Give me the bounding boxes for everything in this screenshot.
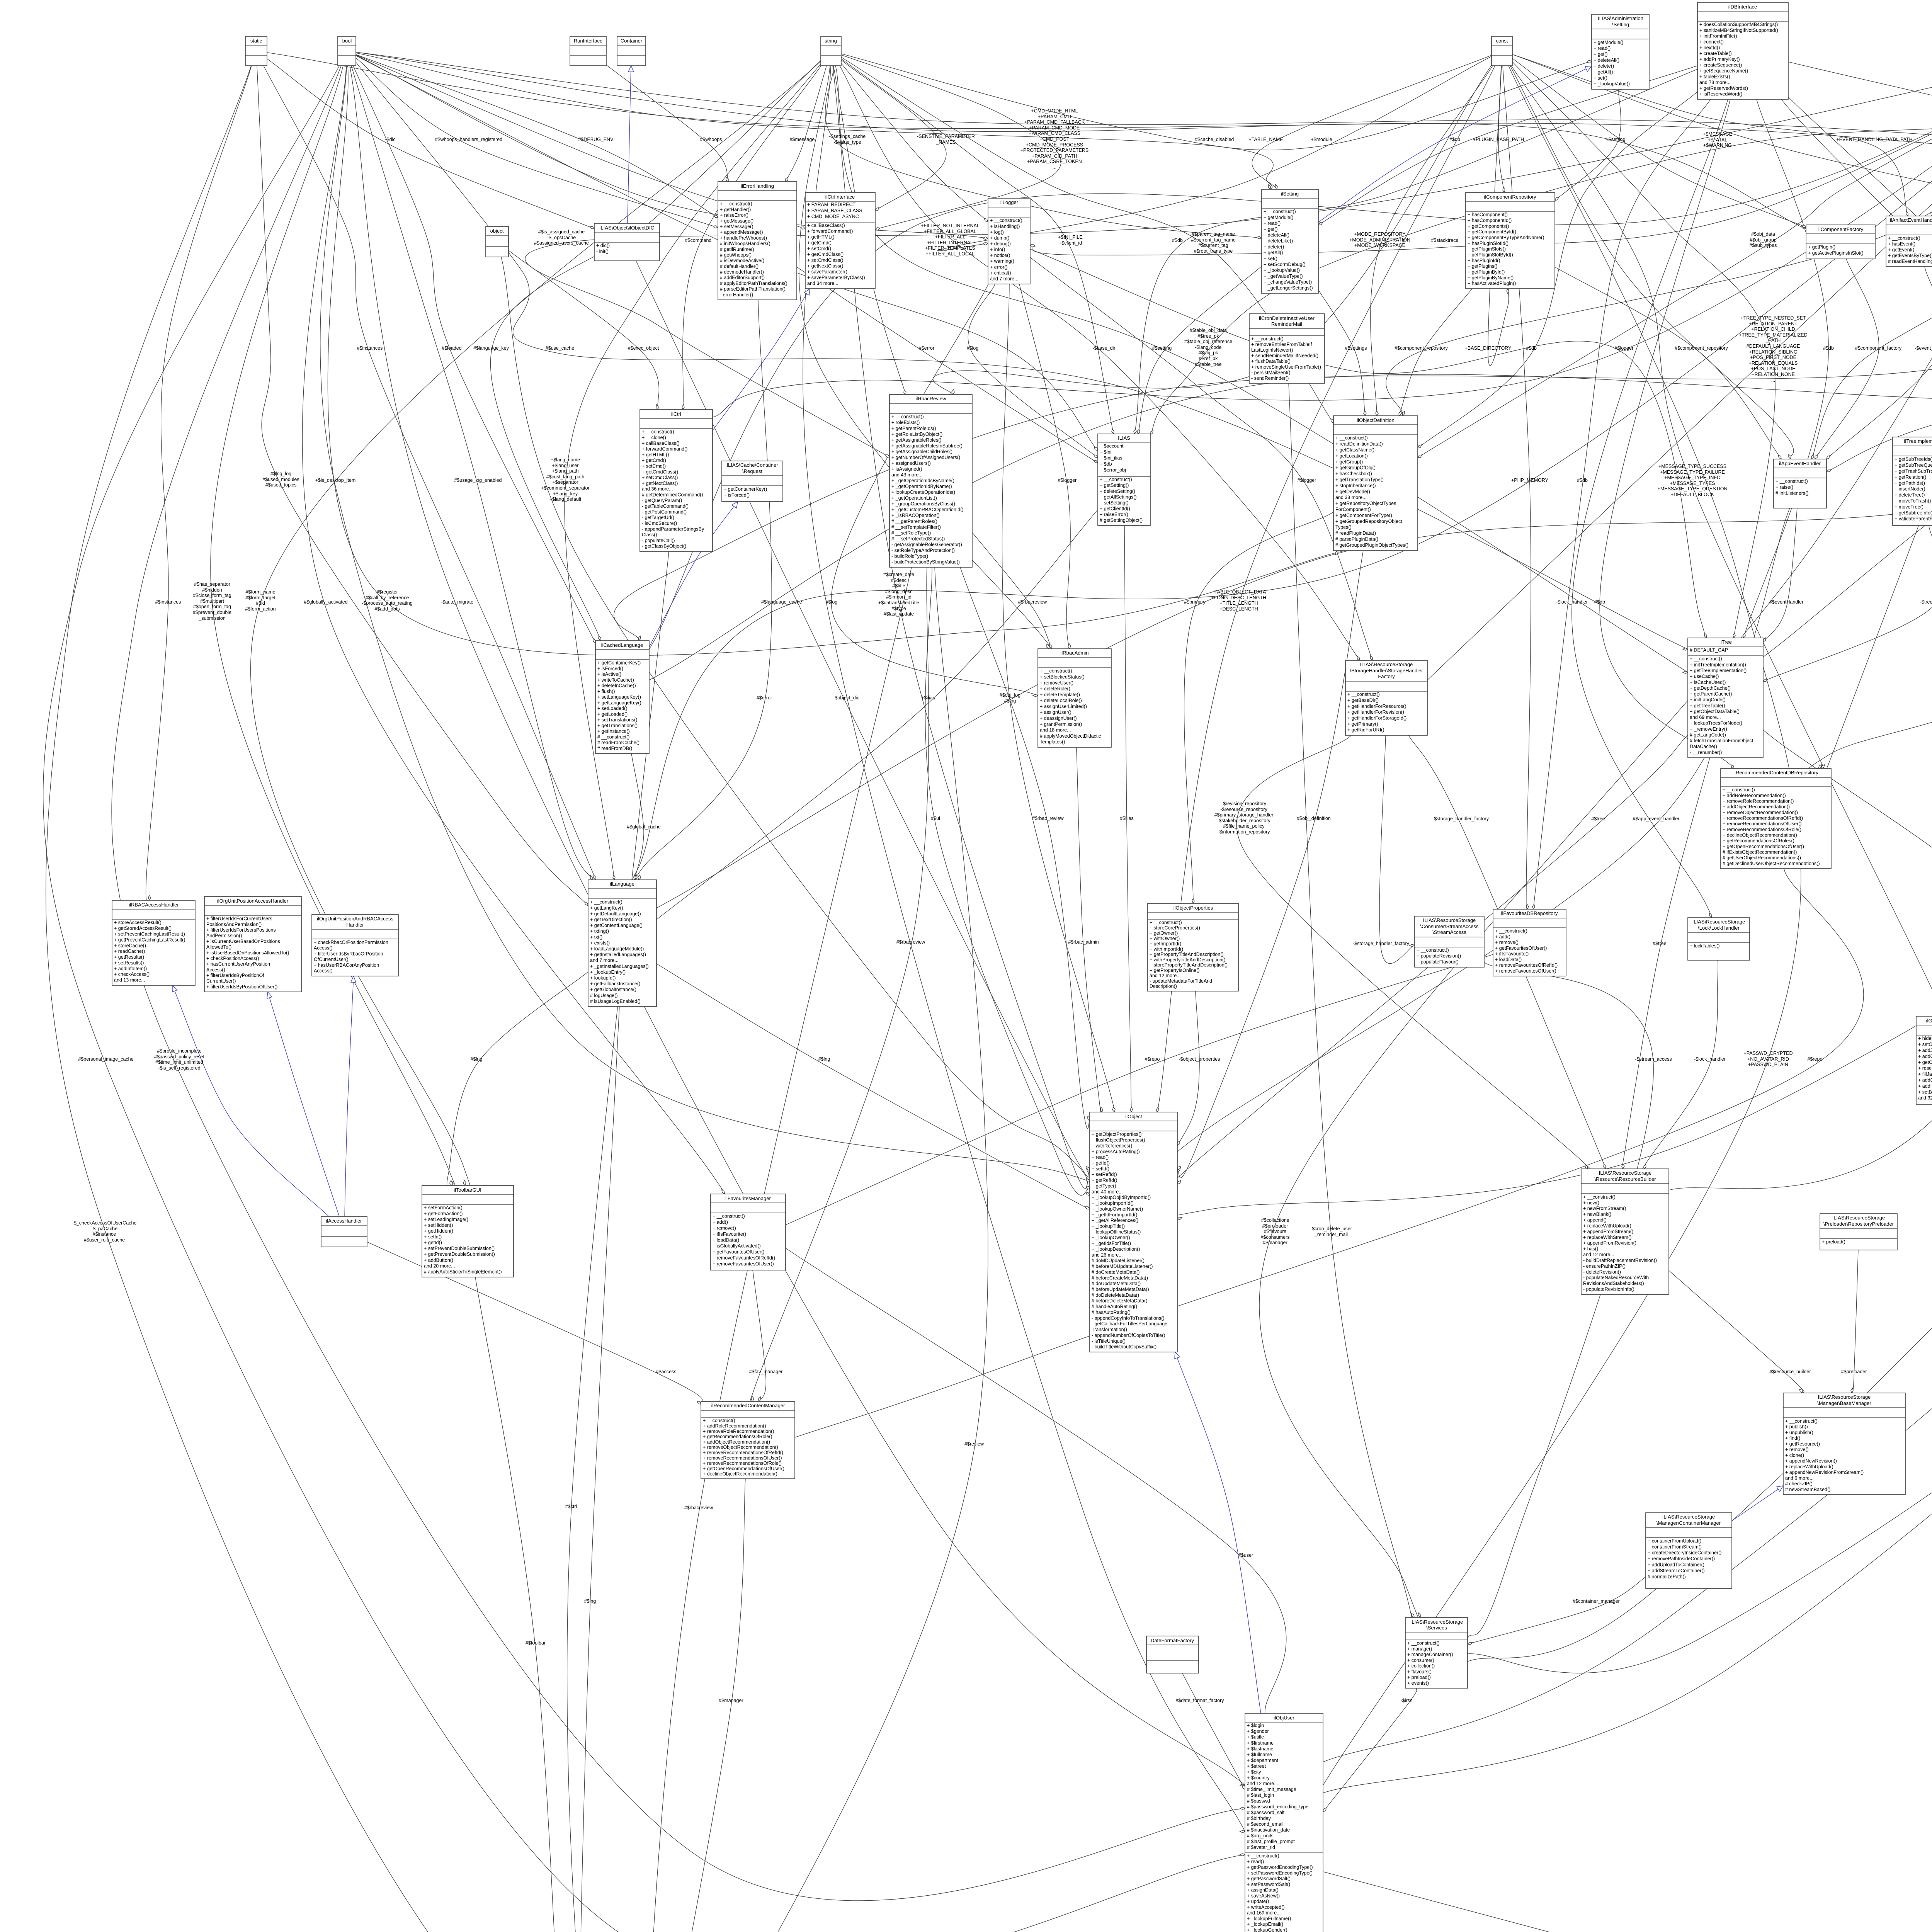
svg-text:and 18 more...: and 18 more... bbox=[1040, 728, 1071, 733]
svg-text:#$cache_disabled: #$cache_disabled bbox=[1195, 137, 1234, 142]
svg-text:+ getResource(): + getResource() bbox=[1785, 1441, 1820, 1447]
svg-text:# getWhoops(): # getWhoops() bbox=[720, 252, 752, 258]
svg-text:+ remove(): + remove() bbox=[1495, 940, 1519, 945]
svg-text:+ CMD_MODE_ASYNC: + CMD_MODE_ASYNC bbox=[807, 214, 859, 219]
svg-text:+ addOnLoadCode(): + addOnLoadCode() bbox=[1918, 1054, 1932, 1059]
svg-text:- getQueryParam(): - getQueryParam() bbox=[642, 498, 682, 503]
svg-text:+ forwardCommand(): + forwardCommand() bbox=[642, 446, 687, 452]
svg-text:+ getHandlerForResource(): + getHandlerForResource() bbox=[1347, 704, 1406, 709]
class bool bbox=[338, 36, 356, 66]
wire array to MAIN bbox=[695, 63, 1932, 1932]
svg-text:+ assignUser(): + assignUser() bbox=[1040, 710, 1071, 715]
wire array to ilCachedLanguage bbox=[629, 55, 1932, 681]
svg-text:+ critical(): + critical() bbox=[990, 270, 1011, 276]
svg-text:# $last_login: # $last_login bbox=[1247, 1793, 1274, 1798]
svg-text:# applyAutoStickyToSingleEleme: # applyAutoStickyToSingleElement() bbox=[424, 1269, 502, 1274]
svg-text:+ deleteAll(): + deleteAll() bbox=[1264, 233, 1289, 238]
svg-text:+PARAM_CMD_MODE: +PARAM_CMD_MODE bbox=[1029, 125, 1080, 131]
svg-text:+ hasPluginSlotId(): + hasPluginSlotId() bbox=[1468, 241, 1509, 246]
svg-text:Types(): Types() bbox=[1335, 525, 1352, 530]
wire ilObjectDIC to ilObject bbox=[636, 261, 1090, 1177]
svg-text:+ consume(): + consume() bbox=[1407, 1658, 1434, 1663]
svg-text:- populateNakedResourceWith: - populateNakedResourceWith bbox=[1583, 1275, 1649, 1281]
svg-text:#$exec_object: #$exec_object bbox=[628, 345, 659, 351]
svg-text:+ addJavaScript(): + addJavaScript() bbox=[1918, 1048, 1932, 1053]
svg-text:# getGroupedPluginObjectTypes(: # getGroupedPluginObjectTypes() bbox=[1335, 543, 1408, 548]
svg-text:+ getId(): + getId() bbox=[1092, 1160, 1110, 1166]
svg-text:#$hidden: #$hidden bbox=[202, 587, 222, 593]
svg-text:#$logger: #$logger bbox=[1058, 478, 1077, 483]
svg-text:+ getTranslations(): + getTranslations() bbox=[597, 723, 638, 728]
svg-text:#$used_modules: #$used_modules bbox=[262, 477, 299, 482]
svg-text:ILIAS\ResourceStorage: ILIAS\ResourceStorage bbox=[1599, 1170, 1652, 1176]
wire ilErrorHandling to ILIAS bbox=[797, 267, 1098, 463]
wire ilSetting to ILIAS bbox=[1138, 266, 1262, 434]
svg-text:+ __construct(): + __construct() bbox=[1264, 209, 1296, 214]
wire ilGlobalTemplateInterface to MAIN bbox=[695, 1104, 1932, 1932]
svg-text:+ deleteInCache(): + deleteInCache() bbox=[597, 683, 636, 689]
svg-text:+ log(): + log() bbox=[990, 230, 1004, 235]
wire ContainerManager to BaseManager bbox=[1732, 1486, 1783, 1521]
svg-text:-$tree_impl: -$tree_impl bbox=[1920, 599, 1932, 605]
svg-text:ilTreeImplementation: ilTreeImplementation bbox=[1904, 438, 1932, 444]
svg-text:+ saveParameterByClass(): + saveParameterByClass() bbox=[807, 275, 865, 281]
svg-text:+ _getLongerSettings(): + _getLongerSettings() bbox=[1264, 285, 1313, 291]
svg-text:ilObject: ilObject bbox=[1125, 1114, 1142, 1119]
wire ilTreeImplementation to ilTree bbox=[1763, 526, 1932, 681]
svg-text:+ getHTML(): + getHTML() bbox=[642, 452, 669, 457]
svg-text:+ __clone(): + __clone() bbox=[642, 435, 666, 440]
svg-text:+ manageContainer(): + manageContainer() bbox=[1407, 1652, 1453, 1657]
svg-text:-$stakeholder_repository: -$stakeholder_repository bbox=[1217, 818, 1270, 823]
svg-text:+ replaceWithUpload(): + replaceWithUpload() bbox=[1583, 1223, 1631, 1229]
svg-text:+ checkAccess(): + checkAccess() bbox=[114, 972, 150, 977]
svg-text:+ $ini_ilias: + $ini_ilias bbox=[1100, 456, 1122, 461]
svg-text:+ update(): + update() bbox=[1247, 1899, 1269, 1904]
svg-text:+ removeRecommendationsOfRole(: + removeRecommendationsOfRole() bbox=[1723, 827, 1801, 832]
svg-text:+ handlePreWhoops(): + handlePreWhoops() bbox=[720, 235, 767, 241]
svg-text:+BASE_DIRECTORY: +BASE_DIRECTORY bbox=[1465, 345, 1512, 351]
svg-text:and 7 more...: and 7 more... bbox=[990, 276, 1019, 281]
svg-text:+ remove(): + remove() bbox=[1785, 1447, 1809, 1452]
svg-text:+ getComponentById(): + getComponentById() bbox=[1468, 229, 1516, 235]
svg-text:#$command: #$command bbox=[685, 238, 712, 243]
svg-text:+ getSetting(): + getSetting() bbox=[1100, 483, 1129, 488]
svg-text:#$rbacreview: #$rbacreview bbox=[1018, 599, 1047, 605]
svg-text:#$table_obj_reference: #$table_obj_reference bbox=[1184, 339, 1232, 344]
svg-text:- getTableCommand(): - getTableCommand() bbox=[642, 503, 689, 509]
svg-text:+ __construct(): + __construct() bbox=[1888, 236, 1920, 241]
svg-text:+MESSAGE_TYPES: +MESSAGE_TYPES bbox=[1670, 481, 1715, 486]
svg-text:+POS_FIRST_NODE: +POS_FIRST_NODE bbox=[1750, 355, 1796, 360]
svg-text:#$repo: #$repo bbox=[1808, 1056, 1823, 1062]
svg-text:+ __construct(): + __construct() bbox=[1776, 479, 1808, 484]
wire string to ilToolbarGUI bbox=[251, 61, 821, 1214]
svg-text:+ $country: + $country bbox=[1247, 1775, 1270, 1781]
svg-text:+ addUploadToContainer(): + addUploadToContainer() bbox=[1648, 1562, 1704, 1568]
class BaseManager bbox=[1783, 1393, 1905, 1495]
svg-text:ilObjectDefinition: ilObjectDefinition bbox=[1357, 417, 1395, 423]
svg-text:Description(): Description() bbox=[1150, 984, 1177, 989]
svg-text:\Manager\BaseManager: \Manager\BaseManager bbox=[1817, 1400, 1871, 1406]
svg-text:#$root_trans_type: #$root_trans_type bbox=[1194, 248, 1233, 254]
svg-text:ilCronDeleteInactiveUser: ilCronDeleteInactiveUser bbox=[1259, 315, 1315, 321]
svg-text:#$long_desc: #$long_desc bbox=[885, 589, 913, 594]
svg-text:-$lock_handler: -$lock_handler bbox=[1694, 1056, 1726, 1062]
class ilRBACAccessHandler bbox=[112, 900, 195, 985]
svg-text:+ raiseError(): + raiseError() bbox=[1100, 512, 1128, 517]
svg-text:#$ctrl: #$ctrl bbox=[565, 1504, 577, 1509]
svg-text:ilSetting: ilSetting bbox=[1281, 191, 1299, 197]
svg-text:+ connect(): + connect() bbox=[1699, 39, 1724, 45]
svg-text:- updateMetadataForTitleAnd: - updateMetadataForTitleAnd bbox=[1150, 978, 1212, 984]
svg-text:+ getParentCache(): + getParentCache() bbox=[1690, 691, 1732, 697]
svg-text:#$current_tag_name: #$current_tag_name bbox=[1191, 237, 1235, 243]
wire ilArtifactEventHandlingData to ilAppEventHandler bbox=[1827, 267, 1932, 459]
wire string to ilCtrl bbox=[683, 66, 821, 410]
svg-text:- sendReminder(): - sendReminder() bbox=[1251, 376, 1289, 381]
svg-text:+ getAssignableRolesInSubtree(: + getAssignableRolesInSubtree() bbox=[891, 443, 963, 449]
svg-text:# beforeDeleteMetaData(): # beforeDeleteMetaData() bbox=[1092, 1298, 1148, 1304]
wire Services to ilObjUser bbox=[1323, 1688, 1417, 1812]
svg-text:and 34 more...: and 34 more... bbox=[807, 281, 838, 286]
svg-text:Handler: Handler bbox=[346, 922, 364, 928]
svg-text:+ getHandlerForRevision(): + getHandlerForRevision() bbox=[1347, 709, 1404, 715]
wire ContainerManager to Services bbox=[1468, 1577, 1646, 1644]
svg-text:- setRoleTypeAndProtection(): - setRoleTypeAndProtection() bbox=[891, 548, 955, 553]
wire ilFavouritesDBRepository to ilFavouritesManager bbox=[759, 954, 1493, 1237]
class RunInterface bbox=[570, 36, 606, 66]
svg-text:+ processAutoRating(): + processAutoRating() bbox=[1092, 1149, 1140, 1154]
svg-text:\Manager\ContainerManager: \Manager\ContainerManager bbox=[1656, 1520, 1721, 1526]
wire ilDBInterface to ilObjectDataCache bbox=[1788, 62, 1932, 190]
svg-text:ilOrgUnitPositionAndRBACAccess: ilOrgUnitPositionAndRBACAccess bbox=[317, 916, 393, 922]
svg-text:LastLoginIsNewer(): LastLoginIsNewer() bbox=[1251, 347, 1293, 353]
svg-text:+ getTrashSubTreeQuery(): + getTrashSubTreeQuery() bbox=[1895, 469, 1932, 474]
class ilCachedLanguage bbox=[595, 641, 649, 753]
svg-text:+PROTECTED_PARAMETERS: +PROTECTED_PARAMETERS bbox=[1020, 148, 1089, 153]
svg-text:#$user_role_cache: #$user_role_cache bbox=[84, 1237, 125, 1243]
svg-text:+ isCacheUsed(): + isCacheUsed() bbox=[1690, 680, 1726, 685]
svg-text:+ collection(): + collection() bbox=[1407, 1663, 1435, 1669]
svg-text:# $last_profile_prompt: # $last_profile_prompt bbox=[1247, 1839, 1295, 1844]
svg-text:ilComponentRepository: ilComponentRepository bbox=[1484, 194, 1536, 200]
wire ilSetting to ilObjectDefinition bbox=[1318, 290, 1365, 416]
wire ilDBInterface to ilSetting bbox=[1318, 66, 1697, 225]
class static bbox=[245, 36, 267, 66]
svg-text:ILIAS\ResourceStorage: ILIAS\ResourceStorage bbox=[1832, 1215, 1885, 1221]
svg-text:+ roleExists(): + roleExists() bbox=[891, 420, 920, 425]
svg-text:+ _removeEntry(): + _removeEntry() bbox=[1690, 726, 1727, 732]
svg-text:+ $utitle: + $utitle bbox=[1247, 1735, 1264, 1740]
svg-text:+PLUGIN_BASE_PATH: +PLUGIN_BASE_PATH bbox=[1473, 137, 1524, 142]
svg-text:+ get(): + get() bbox=[1594, 52, 1607, 57]
svg-text:+ getCmdClass(): + getCmdClass() bbox=[807, 252, 844, 257]
svg-text:+ lookupTreesForNode(): + lookupTreesForNode() bbox=[1690, 721, 1742, 726]
svg-text:+ getOpenRecommendationsOfUser: + getOpenRecommendationsOfUser() bbox=[1723, 844, 1804, 849]
wire string to AdminSetting bbox=[841, 54, 1592, 150]
svg-text:#$cust_lang_path: #$cust_lang_path bbox=[546, 474, 585, 480]
svg-text:#$resource_builder: #$resource_builder bbox=[1769, 1369, 1811, 1374]
svg-text:+ tableExists(): + tableExists() bbox=[1699, 74, 1730, 80]
svg-text:#$obj_data: #$obj_data bbox=[1751, 231, 1775, 237]
svg-text:+ __construct(): + __construct() bbox=[642, 429, 674, 435]
svg-text:+ declineObjectRecommendation(: + declineObjectRecommendation() bbox=[1723, 833, 1797, 838]
svg-text:+NO_AVATAR_RID: +NO_AVATAR_RID bbox=[1747, 1056, 1789, 1062]
wire ILIAS to ilLanguage bbox=[636, 510, 1098, 935]
svg-text:+ moveToTrash(): + moveToTrash() bbox=[1895, 498, 1931, 504]
wire ilRecommendedContentManager to MAIN bbox=[648, 1479, 745, 1932]
svg-text:+ addStreamToContainer(): + addStreamToContainer() bbox=[1648, 1568, 1705, 1573]
svg-text:#$primary: #$primary bbox=[1184, 599, 1206, 605]
svg-text:+ validateParentRelations(): + validateParentRelations() bbox=[1895, 516, 1932, 522]
svg-text:+ setResults(): + setResults() bbox=[114, 960, 144, 966]
svg-text:+ $gender: + $gender bbox=[1247, 1729, 1269, 1734]
svg-text:#$whoops: #$whoops bbox=[700, 137, 722, 142]
svg-text:+$untranslatedTitle: +$untranslatedTitle bbox=[878, 600, 919, 605]
svg-text:+ deassignUser(): + deassignUser() bbox=[1040, 716, 1077, 721]
wire int to ilObject bbox=[1159, 66, 1932, 1220]
wire ilDBInterface to ilObjectDefinition bbox=[1418, 92, 1697, 448]
svg-text:ILIAS: ILIAS bbox=[1118, 435, 1130, 441]
svg-text:+ $ini: + $ini bbox=[1100, 449, 1111, 455]
svg-text:+ setCmdClass(): + setCmdClass() bbox=[807, 258, 843, 263]
svg-text:+ _changeValueType(): + _changeValueType() bbox=[1264, 279, 1312, 285]
svg-text:+ getRelation(): + getRelation() bbox=[1895, 474, 1926, 480]
svg-text:#$component_repository: #$component_repository bbox=[1675, 345, 1728, 351]
svg-text:+ $lastname: + $lastname bbox=[1247, 1746, 1273, 1752]
svg-text:+CMD_POST: +CMD_POST bbox=[1040, 136, 1070, 142]
svg-text:+ delete(): + delete() bbox=[1264, 244, 1284, 250]
svg-text:#$user: #$user bbox=[1238, 1553, 1253, 1558]
svg-text:#$language_key: #$language_key bbox=[473, 345, 509, 351]
wire ILIAS to ilObject bbox=[1124, 526, 1131, 1112]
svg-text:+ flavours(): + flavours() bbox=[1407, 1669, 1432, 1674]
svg-text:# handleAutoRating(): # handleAutoRating() bbox=[1092, 1304, 1137, 1310]
svg-text:+ removeRecommendationsOfRefId: + removeRecommendationsOfRefId() bbox=[703, 1450, 783, 1456]
wire object to ilCtrl bbox=[509, 250, 659, 410]
svg-text:#$time_limit_unlimited: #$time_limit_unlimited bbox=[155, 1060, 203, 1065]
svg-text:+ __construct(): + __construct() bbox=[1690, 656, 1722, 662]
svg-text:+FILTER_INTERNAL: +FILTER_INTERNAL bbox=[927, 240, 973, 245]
svg-text:+ readDefinitionData(): + readDefinitionData() bbox=[1335, 441, 1383, 447]
wire bool to ilLogger bbox=[356, 55, 997, 239]
svg-text:+ _isRBACOperation(): + _isRBACOperation() bbox=[891, 513, 940, 518]
svg-text:+ $street: + $street bbox=[1247, 1764, 1266, 1769]
svg-text:+ PARAM_REDIRECT: + PARAM_REDIRECT bbox=[807, 202, 856, 207]
wire ilLanguage to MAIN bbox=[579, 1007, 621, 1932]
svg-text:#$obj_definition: #$obj_definition bbox=[1297, 816, 1331, 821]
svg-text:RevisionsAndStakeholders(): RevisionsAndStakeholders() bbox=[1583, 1281, 1644, 1286]
svg-text:and 12 more...: and 12 more... bbox=[1150, 973, 1181, 978]
class ilObject bbox=[1090, 1112, 1177, 1352]
svg-text:\Request: \Request bbox=[742, 468, 762, 474]
svg-text:+ remove(): + remove() bbox=[713, 1226, 736, 1231]
svg-text:# doMDUpdateListener(): # doMDUpdateListener() bbox=[1092, 1258, 1145, 1264]
svg-text:+ unpublish(): + unpublish() bbox=[1785, 1430, 1813, 1435]
svg-text:#$log: #$log bbox=[826, 599, 838, 605]
wire ilAccessHandler to ilOrgUnitPositionAccessHandler bbox=[268, 992, 339, 1216]
svg-text:_PATH: _PATH bbox=[1765, 338, 1781, 343]
svg-text:- errorHandler(): - errorHandler() bbox=[720, 292, 753, 298]
svg-text:-$is_self_registered: -$is_self_registered bbox=[158, 1065, 200, 1071]
svg-text:+ PARAM_BASE_CLASS: + PARAM_BASE_CLASS bbox=[807, 208, 862, 213]
svg-text:# $passwd: # $passwd bbox=[1247, 1798, 1270, 1804]
class ilAccessHandler bbox=[321, 1216, 367, 1247]
wire ilLogger to ilRbacAdmin bbox=[1019, 284, 1070, 649]
svg-text:DateFormatFactory: DateFormatFactory bbox=[1151, 1638, 1194, 1643]
svg-text:+TREE_TYPE_MATERIALIZED: +TREE_TYPE_MATERIALIZED bbox=[1739, 332, 1807, 338]
svg-text:+ deleteLocalRole(): + deleteLocalRole() bbox=[1040, 698, 1082, 703]
svg-text:+ addObjectRecommendation(): + addObjectRecommendation() bbox=[1723, 804, 1790, 810]
svg-text:+ _lookupEmail(): + _lookupEmail() bbox=[1247, 1922, 1283, 1927]
svg-text:# normalizePath(): # normalizePath() bbox=[1648, 1574, 1686, 1579]
wire static to ilObjectDIC bbox=[267, 59, 594, 229]
svg-text:RunInterface: RunInterface bbox=[574, 38, 602, 44]
svg-text:#$tree: #$tree bbox=[1653, 941, 1666, 946]
svg-text:+ storePropertyTitleAndDescrip: + storePropertyTitleAndDescription() bbox=[1150, 963, 1228, 968]
svg-text:+ grantPermission(): + grantPermission() bbox=[1040, 721, 1082, 727]
svg-text:+ __construct(): + __construct() bbox=[1785, 1418, 1818, 1424]
svg-text:and 13 more...: and 13 more... bbox=[114, 978, 145, 983]
svg-text:#$current_tag: #$current_tag bbox=[1198, 243, 1228, 248]
wire ilLogger to ILIAS bbox=[968, 284, 1098, 458]
svg-text:+ getComponentByTypeAndName(): + getComponentByTypeAndName() bbox=[1468, 235, 1544, 240]
svg-text:- getClassByObject(): - getClassByObject() bbox=[642, 544, 686, 549]
wire ilRbacReview to MAIN bbox=[638, 567, 912, 1932]
svg-text:#$app_event_handler: #$app_event_handler bbox=[1633, 816, 1680, 821]
svg-text:and 20 more...: and 20 more... bbox=[424, 1263, 455, 1269]
svg-text:+ appendMessage(): + appendMessage() bbox=[720, 230, 763, 235]
class ResourceBuilder bbox=[1581, 1169, 1669, 1294]
svg-text:+ read(): + read() bbox=[1247, 1859, 1264, 1864]
wire string to ilCtrlInterface bbox=[841, 55, 1061, 230]
svg-text:+ __construct(): + __construct() bbox=[1347, 692, 1380, 697]
svg-text:+ setLoaded(): + setLoaded() bbox=[597, 706, 627, 711]
svg-text:+ nextId(): + nextId() bbox=[1699, 45, 1720, 51]
svg-text:+ getFallbackInstance(): + getFallbackInstance() bbox=[590, 981, 640, 986]
svg-text:- appendCopyInfoToTranslations: - appendCopyInfoToTranslations() bbox=[1092, 1315, 1165, 1321]
wire string to ILIAS bbox=[841, 59, 1114, 434]
svg-text:+ addRoleRecommendation(): + addRoleRecommendation() bbox=[703, 1423, 766, 1429]
svg-text:+EVENT_HANDLING_DATA_PATH: +EVENT_HANDLING_DATA_PATH bbox=[1836, 137, 1912, 142]
wire ilDBInterface to ilRbacSystem bbox=[1781, 99, 1932, 1932]
svg-text:+ getImportId(): + getImportId() bbox=[1150, 941, 1181, 947]
svg-text:-$process_auto_reating: -$process_auto_reating bbox=[362, 600, 412, 606]
svg-text:ilOrgUnitPositionAccessHandler: ilOrgUnitPositionAccessHandler bbox=[217, 898, 289, 904]
svg-text:+ getLoaded(): + getLoaded() bbox=[597, 711, 628, 717]
wire int to ilObjUser bbox=[1292, 66, 1932, 1803]
svg-text:+ _lookupFullname(): + _lookupFullname() bbox=[1247, 1916, 1291, 1922]
svg-text:+PARAM_CMD_FALLBACK: +PARAM_CMD_FALLBACK bbox=[1024, 119, 1085, 125]
svg-text:+ _lookupImportId(): + _lookupImportId() bbox=[1092, 1201, 1134, 1206]
svg-text:DataCache(): DataCache() bbox=[1690, 744, 1717, 749]
svg-text:+ __construct(): + __construct() bbox=[891, 414, 924, 420]
wire ilLogger to ilTree bbox=[1030, 249, 1708, 645]
svg-text:+PASSWD_CRYPTED: +PASSWD_CRYPTED bbox=[1743, 1051, 1793, 1056]
class RepositoryPreloader bbox=[1820, 1214, 1897, 1250]
svg-text:ilObjUser: ilObjUser bbox=[1274, 1715, 1294, 1721]
svg-text:# parsePluginData(): # parsePluginData() bbox=[1335, 537, 1378, 542]
wire string to ilRbacReview bbox=[833, 66, 906, 395]
svg-text:+ __construct(): + __construct() bbox=[1407, 1641, 1440, 1646]
svg-text:+ getClassName(): + getClassName() bbox=[1335, 447, 1374, 453]
svg-text:+ getSubTreeIds(): + getSubTreeIds() bbox=[1895, 457, 1932, 462]
svg-text:#DEFAULT_LANGUAGE: #DEFAULT_LANGUAGE bbox=[1747, 344, 1800, 349]
svg-text:- getPostCommand(): - getPostCommand() bbox=[642, 509, 687, 515]
svg-text:+ getNextClass(): + getNextClass() bbox=[642, 481, 678, 486]
svg-text:#$is_assigned_cache: #$is_assigned_cache bbox=[538, 229, 585, 235]
svg-text:+$INI_FILE: +$INI_FILE bbox=[1058, 235, 1083, 240]
svg-text:# readFromDB(): # readFromDB() bbox=[597, 746, 632, 751]
svg-text:#$title: #$title bbox=[892, 583, 905, 588]
class ilCronDeleteInactiveUserReminderMail bbox=[1249, 314, 1325, 383]
svg-text:+ assignedUsers(): + assignedUsers() bbox=[891, 461, 931, 466]
svg-text:+DEFAULT_BLOCK: +DEFAULT_BLOCK bbox=[1671, 492, 1714, 497]
svg-text:#$last_update: #$last_update bbox=[884, 611, 914, 617]
svg-text:+ getContentLanguage(): + getContentLanguage() bbox=[590, 923, 643, 928]
svg-text:string: string bbox=[825, 38, 837, 44]
wire LockHandler to ResourceBuilder bbox=[1641, 960, 1718, 1172]
svg-text:#$rbacreview: #$rbacreview bbox=[896, 939, 925, 945]
svg-text:+ removeRoleRecommendation(): + removeRoleRecommendation() bbox=[703, 1429, 774, 1434]
svg-text:# applyMovedObjectDidactic: # applyMovedObjectDidactic bbox=[1040, 733, 1101, 739]
svg-text:+ _lookupTitle(): + _lookupTitle() bbox=[1092, 1224, 1125, 1229]
svg-text:+ getPasswordEncodingType(): + getPasswordEncodingType() bbox=[1247, 1865, 1313, 1870]
svg-text:+ add(): + add() bbox=[713, 1219, 728, 1225]
svg-text:#$table_obj_data: #$table_obj_data bbox=[1190, 328, 1227, 333]
svg-text:+MESSAGE_TYPE_QUESTION: +MESSAGE_TYPE_QUESTION bbox=[1658, 486, 1728, 492]
svg-text:#$prevent_double: #$prevent_double bbox=[193, 610, 231, 615]
svg-text:+ addButton(): + addButton() bbox=[424, 1257, 453, 1263]
svg-text:+ getContainerKey(): + getContainerKey() bbox=[597, 660, 641, 666]
svg-text:#$desc: #$desc bbox=[891, 578, 906, 583]
svg-text:# __setRoleType(): # __setRoleType() bbox=[891, 530, 931, 536]
svg-text:+ deleteTemplate(): + deleteTemplate() bbox=[1040, 692, 1080, 697]
svg-text:# doUpdateMetaData(): # doUpdateMetaData() bbox=[1092, 1281, 1141, 1286]
svg-text:#$globally_activated: #$globally_activated bbox=[304, 599, 347, 605]
svg-text:and 7 more...: and 7 more... bbox=[590, 958, 619, 963]
wire ilCronDeleteInactiveUserReminderMail to Services bbox=[1289, 383, 1417, 1641]
svg-text:+ txtlng(): + txtlng() bbox=[590, 929, 609, 934]
svg-text:+RELATION_SIBLING: +RELATION_SIBLING bbox=[1749, 349, 1797, 355]
svg-text:ilRBACAccessHandler: ilRBACAccessHandler bbox=[129, 902, 179, 908]
wire CollectionBuilder to Services bbox=[1453, 741, 1932, 1667]
wire bool to ilCachedLanguage bbox=[353, 66, 595, 643]
svg-text:+FILTER_TEMPLATES: +FILTER_TEMPLATES bbox=[925, 245, 975, 251]
svg-text:#$rbacreview: #$rbacreview bbox=[684, 1505, 713, 1510]
svg-text:+RELATION_CHILD: +RELATION_CHILD bbox=[1751, 327, 1795, 332]
svg-text:+ getReservedWords(): + getReservedWords() bbox=[1699, 86, 1748, 91]
wire const to ilComponentFactory bbox=[1512, 58, 1806, 227]
svg-text:-$value_type: -$value_type bbox=[833, 139, 861, 145]
wire string to ilTree bbox=[835, 66, 1723, 695]
svg-text:+ getPluginById(): + getPluginById() bbox=[1468, 269, 1505, 275]
svg-text:#$type: #$type bbox=[891, 606, 906, 611]
svg-text:# getDeterminedCommand(): # getDeterminedCommand() bbox=[642, 492, 703, 498]
wire string to ilObjUser bbox=[803, 66, 1257, 1855]
svg-text:+ removeFavouritesOfUser(): + removeFavouritesOfUser() bbox=[713, 1261, 774, 1267]
svg-text:#$create_date: #$create_date bbox=[883, 572, 914, 577]
class ilToolbarGUI bbox=[422, 1185, 514, 1277]
svg-text:#$tree_pk: #$tree_pk bbox=[1197, 333, 1219, 339]
svg-text:#$db: #$db bbox=[1577, 478, 1588, 483]
svg-text:- init(): - init() bbox=[596, 249, 609, 254]
svg-text:+ hasCheckbox(): + hasCheckbox() bbox=[1335, 471, 1372, 476]
svg-text:+ getStoredAccessResult(): + getStoredAccessResult() bbox=[114, 926, 172, 931]
svg-text:+ getTreeTable(): + getTreeTable() bbox=[1690, 703, 1725, 708]
svg-text:Container: Container bbox=[621, 38, 643, 44]
